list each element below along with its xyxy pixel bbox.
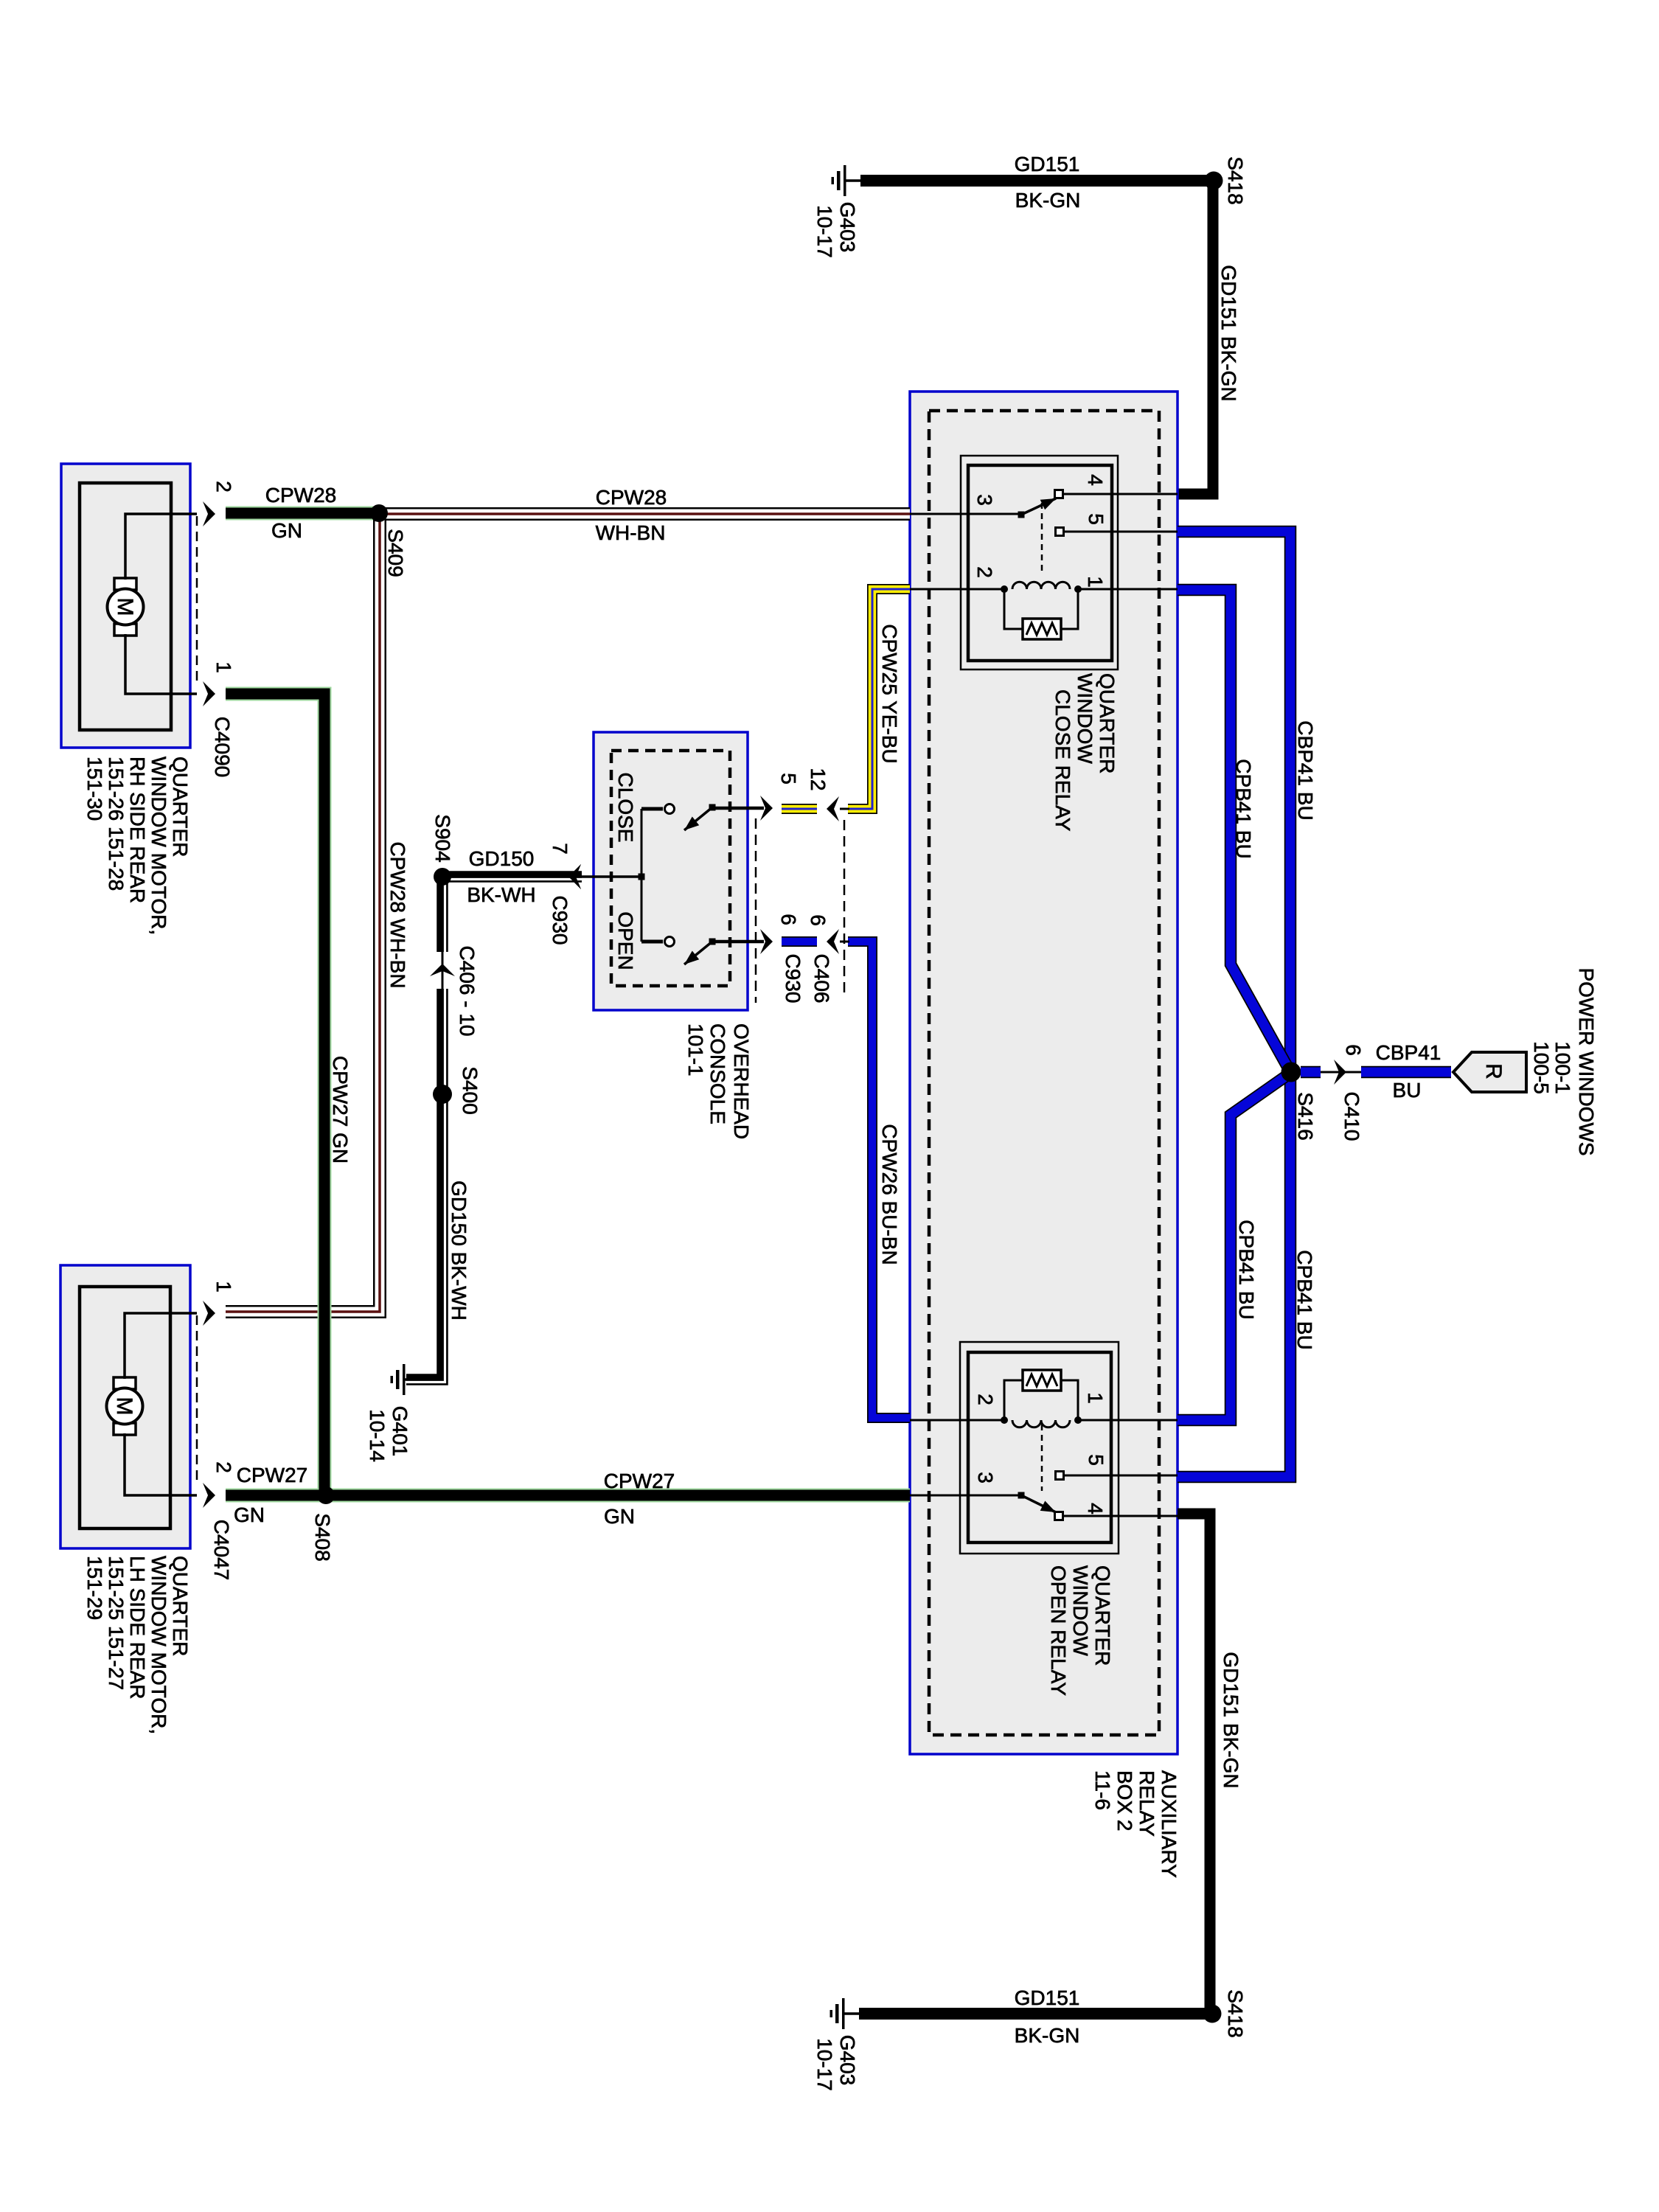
label QUARTER WINDOW CLOSE RELAY [1051, 673, 1119, 832]
open switch contact [665, 937, 675, 947]
svg-text:CPW28 WH-BN: CPW28 WH-BN [386, 841, 409, 988]
svg-text:CPW28: CPW28 [265, 484, 336, 507]
auxiliary relay box 2 (blue box) [910, 392, 1178, 1754]
svg-text:7: 7 [549, 843, 571, 855]
quarter window motor LH side rear (blue box) [60, 1265, 190, 1548]
label CPW28 (GN wire) [265, 484, 336, 507]
svg-text:CPW26 BU-BN: CPW26 BU-BN [878, 1124, 901, 1265]
lead into blue wire [840, 941, 849, 943]
connector dashed line C930 [755, 818, 757, 1003]
wire CBP41 BU close pin5 to S416 to open pin5 [1178, 532, 1290, 1477]
svg-text:CPB41 BU: CPB41 BU [1293, 1250, 1316, 1349]
open switch output wire [712, 929, 773, 954]
RH motor connector dashed line [196, 516, 198, 682]
label CPW27 GN (vertical run) [329, 1056, 352, 1164]
svg-text:S400: S400 [459, 1066, 481, 1114]
svg-text:WINDOW MOTOR,: WINDOW MOTOR, [147, 1556, 170, 1734]
label GN (LH motor) [234, 1503, 265, 1526]
svg-text:6: 6 [1342, 1044, 1365, 1056]
wire CPW26 BU-BN console to open relay coil [848, 942, 910, 1418]
svg-text:GD151 BK-GN: GD151 BK-GN [1217, 265, 1240, 401]
wire CBP41 BU stub from S416 [1301, 1066, 1321, 1079]
connector C406-10 arrow on vertical [430, 964, 455, 976]
svg-text:2: 2 [212, 481, 235, 493]
label C930 (open) [782, 954, 804, 1004]
svg-text:S418: S418 [1224, 1989, 1247, 2037]
splice S408 [317, 1486, 335, 1504]
label pin 2 (RH motor) [212, 481, 235, 493]
open relay pin numbers [974, 1392, 1107, 1514]
label C406 (open) [810, 954, 833, 1004]
connector arrow C930 side [568, 864, 581, 889]
ground G401 [391, 1364, 407, 1395]
svg-text:GN: GN [604, 1505, 635, 1528]
ground G403 (top) [832, 165, 861, 196]
svg-text:S418: S418 [1224, 156, 1247, 204]
svg-text:11-6: 11-6 [1091, 1770, 1114, 1810]
svg-text:1: 1 [212, 1281, 235, 1293]
svg-text:GD151 BK-GN: GD151 BK-GN [1220, 1652, 1242, 1788]
label 12 (C406 close) [807, 768, 829, 790]
splice S416 [1281, 1062, 1301, 1082]
label AUXILIARY RELAY BOX 2 11-6 [1091, 1770, 1180, 1878]
svg-text:C406 - 10: C406 - 10 [456, 946, 479, 1037]
svg-text:RH SIDE REAR: RH SIDE REAR [126, 757, 149, 903]
svg-text:BK-GN: BK-GN [1015, 2024, 1080, 2047]
svg-text:GN: GN [234, 1503, 265, 1526]
RH motor M1 symbol [108, 578, 144, 636]
LH motor pin 2 arrow [203, 1483, 215, 1508]
open relay pin 4 contact [1055, 1512, 1063, 1520]
LH motor connector dashed line [196, 1315, 198, 1484]
svg-text:BK-GN: BK-GN [1015, 189, 1081, 212]
label GN (CPW28) [271, 519, 302, 542]
label 6 (C930 open) [777, 914, 800, 925]
label BK-WH [467, 883, 535, 906]
svg-text:BK-WH: BK-WH [467, 883, 535, 906]
label GD151 (bottom wire) [1015, 1986, 1080, 2009]
label GD150 BK-WH (vertical) [448, 1180, 470, 1321]
svg-text:6: 6 [807, 914, 829, 926]
lead into yellow wire [840, 808, 849, 810]
label CBP41 BU (close pin5 vertical) [1294, 720, 1317, 820]
open relay coil wire pin 2 [910, 1419, 1003, 1422]
label S416 [1294, 1092, 1317, 1140]
svg-text:CPB41 BU: CPB41 BU [1232, 759, 1255, 858]
label G403 10-17 (top) [813, 202, 859, 258]
label G401 10-14 [366, 1406, 411, 1462]
svg-text:S409: S409 [384, 529, 407, 577]
close relay coil [1001, 582, 1082, 593]
label C4047 [210, 1520, 233, 1581]
power windows off-page reference R [1453, 1052, 1526, 1092]
label S904 [431, 814, 454, 862]
svg-text:C4047: C4047 [210, 1520, 233, 1581]
label 5 (C930 close) [777, 773, 800, 785]
LH motor internal leads [125, 1313, 197, 1495]
svg-text:1: 1 [1084, 1392, 1107, 1404]
label GD150 [469, 847, 535, 870]
label CPW26 BU-BN [878, 1124, 901, 1265]
LH motor connector housing rect [80, 1287, 170, 1528]
close switch arm [684, 804, 716, 831]
overhead console box [594, 732, 748, 1010]
label C410 [1340, 1092, 1363, 1141]
svg-text:CBP41 BU: CBP41 BU [1294, 720, 1317, 820]
label GD151 BK-GN (vertical, top) [1217, 265, 1240, 401]
svg-text:101-1: 101-1 [684, 1023, 707, 1077]
svg-text:POWER WINDOWS: POWER WINDOWS [1575, 967, 1598, 1155]
svg-text:100-5: 100-5 [1530, 1041, 1553, 1094]
svg-text:151-26 151-28: 151-26 151-28 [105, 757, 128, 891]
svg-text:QUARTER: QUARTER [1096, 673, 1119, 773]
svg-text:CPW28: CPW28 [596, 486, 667, 509]
svg-text:M: M [113, 598, 137, 616]
label pin 2 (LH motor) [212, 1461, 235, 1473]
wire CPW27 GN (RH motor pin1 down, S408, to open relay pin 3) [226, 694, 910, 1495]
wire CPW28 GN (RH motor pin 2 to S409) [226, 507, 379, 521]
label CPW25 YE-BU [878, 624, 901, 763]
label CLOSE [614, 773, 637, 843]
label POWER WINDOWS 100-1 100-5 [1530, 967, 1598, 1155]
label CPW28 WH-BN (vertical run) [386, 841, 409, 988]
svg-text:4: 4 [1084, 474, 1107, 486]
svg-text:2: 2 [212, 1461, 235, 1473]
svg-text:S408: S408 [311, 1513, 334, 1561]
svg-text:OPEN RELAY: OPEN RELAY [1047, 1565, 1070, 1696]
label S400 [459, 1066, 481, 1114]
label GD151 (top wire) [1015, 153, 1080, 175]
label G403 10-17 (bottom) [813, 2035, 859, 2091]
close relay coil wire pin 2 [910, 588, 1003, 591]
svg-text:CPW27: CPW27 [604, 1470, 675, 1492]
label CPW27 (right of S408) [604, 1470, 675, 1492]
svg-text:LH SIDE REAR: LH SIDE REAR [126, 1556, 149, 1700]
label BK-GN (top wire) [1015, 189, 1081, 212]
label OVERHEAD CONSOLE 101-1 [684, 1023, 753, 1139]
quarter window motor RH side rear (blue box) [61, 464, 190, 748]
open relay pin 4 wire [1063, 1515, 1178, 1517]
svg-text:6: 6 [777, 914, 800, 925]
svg-text:100-1: 100-1 [1551, 1041, 1574, 1094]
svg-text:1: 1 [1084, 576, 1107, 588]
svg-text:2: 2 [974, 1394, 997, 1405]
svg-text:QUARTER: QUARTER [169, 1556, 192, 1656]
svg-text:C930: C930 [549, 896, 571, 945]
label QUARTER WINDOW OPEN RELAY [1047, 1565, 1114, 1696]
wire CPB41 BU close pin1 to S416 [1178, 590, 1290, 1071]
label CBP41 [1376, 1041, 1441, 1064]
close relay dashed actuator link [1041, 503, 1043, 572]
connector dashed line C406 [844, 820, 846, 996]
open relay pin 1 wire [1079, 1419, 1178, 1422]
open relay coil [1001, 1416, 1082, 1427]
LH motor pin 1 arrow [203, 1301, 215, 1326]
splice S418 (bottom) [1203, 2005, 1222, 2023]
svg-text:5: 5 [777, 773, 800, 785]
close relay parallel resistor [1004, 591, 1078, 639]
label WH-BN [596, 521, 666, 544]
svg-text:CPB41 BU: CPB41 BU [1235, 1220, 1258, 1319]
open relay common contact pin 3 [1018, 1492, 1025, 1499]
svg-text:CPW27 GN: CPW27 GN [329, 1056, 352, 1164]
label C406 - 10 [456, 946, 479, 1037]
svg-text:BOX 2: BOX 2 [1113, 1770, 1136, 1831]
label S418 (top) [1224, 156, 1247, 204]
LH motor M2 symbol [107, 1377, 143, 1435]
connector arrow (C406 close) [827, 796, 839, 821]
label CPB41 BU (open pin5 vertical) [1293, 1250, 1316, 1349]
svg-text:S904: S904 [431, 814, 454, 862]
svg-text:3: 3 [973, 494, 996, 506]
svg-text:WINDOW: WINDOW [1074, 673, 1096, 764]
quarter window close relay U1 outer box [961, 456, 1118, 669]
wire CPW25 YE-BU console to close relay coil [848, 589, 910, 809]
RH motor pin 2 arrow [203, 501, 215, 526]
label 6 (C410 pin) [1342, 1044, 1365, 1056]
svg-text:3: 3 [974, 1472, 997, 1484]
quarter window open relay U2 outer box [960, 1342, 1119, 1554]
label QUARTER WINDOW MOTOR LH SIDE REAR [83, 1556, 192, 1734]
close switch contact [665, 804, 675, 814]
wire CPB41 BU open pin1 to S416 [1178, 1074, 1290, 1420]
svg-text:GN: GN [271, 519, 302, 542]
svg-text:G401: G401 [389, 1406, 411, 1457]
svg-text:GD151: GD151 [1015, 1986, 1080, 2009]
svg-text:BU: BU [1393, 1079, 1422, 1102]
RH motor pin 1 arrow [203, 681, 215, 706]
svg-text:5: 5 [1085, 513, 1107, 525]
svg-text:G403: G403 [836, 202, 859, 253]
splice S418 (top) [1205, 172, 1223, 190]
label GD151 BK-GN (vertical, bottom) [1220, 1652, 1242, 1788]
label S408 [311, 1513, 334, 1561]
open switch arm [684, 939, 716, 965]
label QUARTER WINDOW MOTOR RH SIDE REAR [83, 757, 192, 935]
svg-text:2: 2 [973, 566, 996, 578]
console common bus [639, 809, 664, 942]
close relay pin 5 wire [1064, 531, 1178, 533]
svg-text:CONSOLE: CONSOLE [706, 1023, 729, 1124]
open relay dashed actuator link [1041, 1425, 1043, 1491]
svg-text:WINDOW: WINDOW [1069, 1565, 1092, 1656]
splice S400 [433, 1085, 452, 1104]
splice S409 [370, 504, 388, 522]
svg-text:CLOSE: CLOSE [614, 773, 637, 843]
svg-text:4: 4 [1084, 1503, 1107, 1514]
close relay pin 1 wire [1079, 588, 1178, 591]
label CPW28 (WH-BN horizontal) [596, 486, 667, 509]
svg-text:GD150 BK-WH: GD150 BK-WH [448, 1180, 470, 1321]
connector segment CPW26 (blue) [782, 936, 817, 947]
RH motor internal leads [125, 514, 197, 694]
svg-text:WINDOW MOTOR,: WINDOW MOTOR, [147, 757, 170, 935]
svg-text:5: 5 [1085, 1454, 1107, 1466]
close relay pin 5 contact [1056, 528, 1064, 536]
ground G403 (bottom) [830, 1998, 860, 2029]
close relay pin numbers [973, 474, 1107, 588]
label pin 1 (LH motor) [212, 1281, 235, 1293]
console dashed outline [611, 751, 730, 986]
wire GD150 BK-WH from console to S904 to G401 [406, 877, 582, 1382]
close relay switch arm [1021, 498, 1056, 515]
relay box dashed outline [929, 411, 1159, 1735]
wire CPW28 WH-BN (S409 right and down to LH motor pin 1) [226, 514, 910, 1312]
label S418 (bottom) [1224, 1989, 1247, 2037]
svg-text:QUARTER: QUARTER [169, 757, 192, 857]
svg-text:OVERHEAD: OVERHEAD [730, 1023, 753, 1139]
svg-text:C410: C410 [1340, 1092, 1363, 1141]
svg-text:GD151: GD151 [1015, 153, 1080, 175]
wire GD151 BK-GN bottom horizontal [859, 2008, 1212, 2020]
svg-text:10-14: 10-14 [366, 1409, 389, 1462]
close relay common contact pin 3 [1018, 512, 1025, 518]
svg-text:WH-BN: WH-BN [596, 521, 666, 544]
wire CBP41 BU to power windows [1361, 1066, 1451, 1079]
connector C410 lead and arrow [1321, 1060, 1361, 1085]
svg-text:C406: C406 [810, 954, 833, 1004]
svg-text:CPW27: CPW27 [237, 1464, 307, 1486]
close relay pin 3 wire [910, 513, 1018, 515]
close switch output wire [712, 796, 773, 821]
wire GD151 BK-GN top horizontal [860, 175, 1213, 187]
label 6 (C406 open) [807, 914, 829, 926]
svg-text:AUXILIARY: AUXILIARY [1158, 1770, 1180, 1878]
label CPB41 BU (close pin1 vertical) [1232, 759, 1255, 858]
console ground lead C930 pin 7 [568, 864, 641, 889]
wire GD151 BK-GN from open relay pin 4 down [1178, 1514, 1210, 2014]
svg-text:RELAY: RELAY [1135, 1770, 1158, 1837]
svg-text:R: R [1481, 1063, 1506, 1079]
label BK-GN (bottom wire) [1015, 2024, 1080, 2047]
wire GD151 BK-GN vertical to close relay pin 4 [1178, 181, 1213, 494]
svg-text:GD150: GD150 [469, 847, 535, 870]
label S409 [384, 529, 407, 577]
label pin 1 (RH motor) [212, 661, 235, 673]
label C930 (pin 7) [549, 896, 571, 945]
svg-text:G403: G403 [836, 2035, 859, 2086]
svg-text:CPW25 YE-BU: CPW25 YE-BU [878, 624, 901, 763]
close relay pin 4 contact [1055, 490, 1063, 498]
svg-text:151-29: 151-29 [83, 1556, 106, 1620]
svg-text:QUARTER: QUARTER [1091, 1565, 1114, 1666]
svg-text:151-25 151-27: 151-25 151-27 [105, 1556, 128, 1690]
svg-text:10-17: 10-17 [813, 2038, 836, 2091]
svg-text:C930: C930 [782, 954, 804, 1004]
connector segment CPW25 (yellow) [782, 804, 817, 814]
svg-text:10-17: 10-17 [813, 205, 836, 258]
splice S904 [434, 868, 451, 886]
label 7 [549, 843, 571, 855]
open relay pin 5 contact [1056, 1472, 1064, 1480]
open relay pin 3 wire [910, 1495, 1018, 1497]
open relay switch arm [1021, 1495, 1056, 1512]
label OPEN [614, 911, 637, 970]
close relay pin 4 wire [1063, 493, 1178, 495]
svg-text:S416: S416 [1294, 1092, 1317, 1140]
open relay parallel resistor [1004, 1370, 1078, 1418]
svg-text:M: M [112, 1397, 136, 1416]
label CPB41 BU (open pin1 vertical) [1235, 1220, 1258, 1319]
label BU [1393, 1079, 1422, 1102]
svg-text:CBP41: CBP41 [1376, 1041, 1441, 1064]
svg-text:151-30: 151-30 [83, 757, 106, 821]
svg-text:OPEN: OPEN [614, 911, 637, 970]
label CPW27 (LH motor) [237, 1464, 307, 1486]
connector arrow (C406 open) [827, 929, 839, 954]
RH motor connector housing rect [80, 483, 171, 730]
svg-text:1: 1 [212, 661, 235, 673]
label C4090 [211, 717, 234, 778]
open relay pin 5 wire [1064, 1475, 1178, 1477]
label GN (right of S408) [604, 1505, 635, 1528]
svg-text:CLOSE RELAY: CLOSE RELAY [1051, 689, 1074, 832]
svg-text:12: 12 [807, 768, 829, 790]
svg-text:C4090: C4090 [211, 717, 234, 778]
